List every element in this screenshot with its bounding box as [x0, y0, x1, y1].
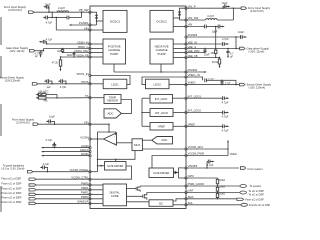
wire TS internal — [90, 97, 104, 99]
capacitor C6 10nF — [66, 52, 75, 58]
wire snubber row — [52, 12, 81, 17]
label From Input Supply top-left — [4, 5, 27, 12]
wire INT_LDO1 internal — [142, 98, 186, 126]
svg-text:30.6k: 30.6k — [212, 61, 219, 64]
node PGND2 junction — [160, 71, 161, 72]
capacitor C18 4.7uF VEE out — [226, 49, 234, 59]
wire GPO external — [186, 177, 218, 179]
transistor Q1 — [127, 186, 141, 192]
svg-text:(-15V, 120mA): (-15V, 120mA) — [249, 85, 266, 89]
arrow to VNEG net — [227, 140, 229, 143]
svg-text:GATE DRIVER: GATE DRIVER — [153, 172, 169, 175]
wire uC row 4 — [36, 193, 90, 195]
svg-text:I2C: I2C — [159, 201, 163, 205]
svg-text:From uC or DSP: From uC or DSP — [1, 176, 21, 180]
svg-text:-: - — [114, 134, 115, 138]
svg-text:INT_LDO2: INT_LDO2 — [155, 111, 168, 115]
svg-text:To uC or DSP: To uC or DSP — [249, 193, 265, 196]
label From Input Supply mid-left — [12, 117, 35, 124]
node snubber junction — [81, 12, 82, 13]
capacitor C21 4.7uF INT_LDO1 — [222, 96, 229, 104]
MUX — [132, 139, 142, 151]
svg-text:LDO1: LDO1 — [111, 82, 119, 86]
connector source driver supply — [32, 83, 37, 86]
block gate driver right — [149, 168, 174, 178]
wire VIN3P3 external — [186, 167, 239, 169]
block INT_LDO1 — [150, 95, 173, 104]
svg-text:From uC or DSP: From uC or DSP — [2, 200, 22, 204]
connector From system — [240, 167, 245, 170]
svg-text:4.7µF: 4.7µF — [222, 37, 229, 41]
wire WAKEUP to digital core — [90, 202, 103, 204]
capacitor C19 plates — [205, 78, 207, 82]
svg-text:4.7µF: 4.7µF — [46, 22, 53, 25]
transistor Q2 — [127, 193, 147, 200]
svg-text:µF: µF — [35, 55, 38, 58]
capacitor C23 4.7uF VREF — [222, 124, 229, 132]
connector gate driver supply left — [30, 49, 35, 52]
svg-text:µF: µF — [230, 55, 233, 58]
connector source driver supply negative — [240, 83, 245, 86]
svg-text:4.7µF: 4.7µF — [222, 128, 229, 132]
capacitor C20 4.7uF VNEG — [220, 80, 231, 86]
resistor R5 30.6k — [212, 57, 221, 69]
ground arrow ASHLD — [41, 151, 90, 153]
svg-text:1M: 1M — [57, 50, 60, 53]
wire VCOM_PWR external — [186, 149, 228, 156]
connector uC row 1 — [29, 178, 36, 180]
node VB_SW junction — [96, 20, 97, 21]
block negative charge pump — [150, 39, 173, 64]
svg-text:4.7µF: 4.7µF — [46, 139, 53, 142]
wire digital core to I2C — [127, 201, 150, 203]
wire temp sensor to ADC — [121, 100, 132, 114]
ground arrow PGND1 — [69, 24, 90, 26]
capacitor C9 10uF VIN — [46, 116, 56, 125]
wire VDDH_IN external — [47, 43, 90, 45]
svg-text:MUX: MUX — [134, 143, 140, 147]
wire op-amp feedback — [98, 132, 117, 139]
svg-text:VB_SW: VB_SW — [79, 8, 89, 12]
diode D2 internal DCDC2 — [178, 12, 181, 15]
wire SCL external — [186, 204, 241, 206]
svg-text:(22V, 10mA): (22V, 10mA) — [10, 49, 25, 53]
connector oval nINT — [240, 191, 247, 194]
block LDO2 — [146, 79, 170, 89]
wire uC row 5 — [36, 198, 90, 200]
block DCDC2 — [150, 10, 173, 32]
ground arrow DGND — [41, 155, 90, 157]
connector panel backplane — [27, 170, 32, 173]
svg-text:(3.0V-6.0V): (3.0V-6.0V) — [250, 9, 264, 13]
node VIN_P junction — [233, 8, 234, 9]
wire Q2 to nINT — [147, 192, 186, 194]
svg-text:SENSOR: SENSOR — [107, 99, 118, 103]
label Gate driver Supply right — [247, 46, 270, 53]
connector gate driver supply right — [240, 47, 245, 50]
node VIN_SW junction — [179, 17, 180, 18]
svg-text:1µF: 1µF — [46, 86, 51, 89]
wire gate driver right outputs — [174, 168, 187, 178]
resistor R3 43k — [36, 97, 58, 103]
wire SDA external — [186, 198, 237, 200]
svg-text:PUMP: PUMP — [158, 52, 166, 56]
DAC — [152, 137, 173, 144]
svg-text:(-20V, 12mA): (-20V, 12mA) — [249, 50, 265, 54]
node gate rail junctions — [204, 48, 236, 49]
node gate supply junction — [43, 50, 44, 51]
block INT_LDO2 — [150, 109, 173, 117]
left pin circles — [89, 11, 91, 204]
svg-text:From uC or DSP: From uC or DSP — [2, 195, 22, 199]
node VNEG junction — [235, 84, 236, 85]
connector uC row 5 — [29, 198, 36, 200]
svg-text:TEMP: TEMP — [109, 95, 116, 99]
label Source Driver Supply negative — [247, 82, 272, 89]
wire Q1 to PWR_GOOD — [140, 185, 186, 187]
wire VIN internal DCDC2 — [173, 26, 186, 28]
block temp sensor — [104, 95, 121, 104]
svg-text:DAC: DAC — [162, 138, 168, 142]
node internal LDO bus junction — [141, 112, 142, 113]
svg-text:(3.0V-6.0V): (3.0V-6.0V) — [8, 8, 22, 12]
wire VIN analog external — [38, 123, 90, 125]
inductor L2 4.7uH — [206, 15, 218, 20]
wire nINT external — [186, 192, 240, 194]
left pin labels — [70, 8, 90, 204]
label To panel backplane — [1, 165, 25, 171]
wire VIN right external — [186, 27, 218, 49]
svg-text:To system: To system — [250, 184, 262, 188]
resistor R1 1M — [57, 48, 63, 53]
label Source Driver Supply — [0, 75, 24, 82]
wire PGND2 external with ground arrow — [186, 71, 207, 73]
svg-text:VCOM: VCOM — [80, 135, 89, 139]
wire uC row 6 — [36, 202, 90, 204]
node VCOM output junction — [97, 138, 98, 139]
svg-text:ADC: ADC — [108, 111, 114, 115]
wire MUX bottom to gate driver left — [98, 151, 136, 162]
svg-text:DIGITAL: DIGITAL — [110, 190, 121, 194]
label Gate driver Supply left — [6, 46, 29, 53]
wires VDDH pins to positive charge pump — [90, 44, 103, 57]
wire VEE_FB external — [186, 57, 220, 59]
capacitor C2 4.7uF — [43, 16, 53, 25]
wires PWR inputs to digital core — [90, 185, 103, 199]
wire VEE_DRV external — [186, 52, 205, 54]
connector oval SCL — [241, 203, 248, 206]
wire VCOM_ADJ external to VNEG — [186, 142, 228, 149]
arrow gate driver output — [175, 171, 178, 175]
wire VIN internal to amplifier — [90, 124, 109, 132]
capacitor C14 10uF — [212, 25, 225, 34]
wire TS external — [57, 94, 90, 98]
svg-text:From uC or DSP: From uC or DSP — [2, 182, 22, 186]
wire input supply to VB_SW — [34, 11, 90, 13]
wire VIN_P internal — [173, 8, 186, 20]
connector uC row 6 — [29, 202, 36, 204]
capacitor C17 12nF — [203, 49, 210, 57]
capacitor C16 4.7uF VEE_IN — [222, 37, 229, 46]
node VCOM_ADJ junction — [227, 148, 228, 149]
node gate driver tap junction — [97, 165, 98, 166]
wires VEE pins to negative charge pump — [173, 44, 186, 58]
block positive charge pump — [103, 39, 126, 64]
connector uC row 2 — [29, 184, 36, 186]
svg-text:10kΩ: 10kΩ — [219, 192, 225, 195]
labels From uC or DSP rows — [1, 176, 21, 204]
node PGND3 junction — [235, 36, 236, 37]
block digital core — [103, 184, 127, 206]
block I2C — [149, 200, 173, 207]
svg-text:(15V,120mA): (15V,120mA) — [5, 78, 20, 82]
wire VIN_P external — [186, 7, 242, 9]
wire VNEG_IN external flying capacitor link — [186, 77, 236, 85]
label From Input Supply top-right — [248, 6, 271, 13]
wire PGND3 external — [186, 37, 240, 49]
svg-text:CORE: CORE — [111, 194, 119, 198]
wire VCOM output — [90, 138, 104, 140]
connector uC row 3 — [29, 189, 36, 191]
capacitor C5 4.7uF VDDH_IN — [39, 38, 53, 44]
svg-text:4.7µF: 4.7µF — [225, 82, 231, 84]
svg-text:LDO2: LDO2 — [154, 82, 162, 86]
op-amp VCOM amplifier — [104, 133, 117, 146]
connector input supply mid-left — [33, 123, 38, 126]
svg-text:INT_LDO1: INT_LDO1 — [155, 97, 168, 101]
wire VCOM_PANEL external — [33, 171, 90, 173]
diode D1 internal DCDC1 — [95, 15, 98, 18]
svg-text:+: + — [114, 142, 116, 146]
svg-text:2.2µH: 2.2µH — [58, 7, 65, 10]
wire VEE_IN external — [186, 43, 222, 45]
ground arrow AGND — [41, 147, 90, 149]
svg-text:DCDC1: DCDC1 — [110, 20, 121, 24]
wire VIN pin to input rail — [56, 18, 90, 31]
svg-text:(3.0V-6.0V): (3.0V-6.0V) — [16, 121, 30, 125]
wire uC row 1 — [36, 178, 90, 180]
wire VPOS_IN internal — [90, 76, 130, 85]
svg-text:From uC or DSP: From uC or DSP — [2, 191, 22, 195]
wire input rail drop — [51, 12, 53, 17]
capacitor C1 10uF — [43, 3, 51, 13]
resistor R6 10k — [216, 178, 225, 187]
capacitor C15 10uF PGND3 — [238, 30, 247, 39]
block LDO1 — [103, 79, 127, 89]
svg-text:From system: From system — [248, 167, 263, 171]
wire VIN internal DCDC1 — [90, 29, 103, 31]
svg-text:4.7µF: 4.7µF — [43, 163, 50, 166]
wire VIN_SW external — [186, 8, 233, 20]
wire PGND1 internal — [90, 24, 97, 26]
node VIN junction — [56, 17, 57, 18]
wire MUX to op-amp positive input — [117, 142, 133, 144]
wire VIN_SW internal — [180, 19, 187, 21]
svg-text:(-0.3 to -2.5V, 15mA): (-0.3 to -2.5V, 15mA) — [1, 168, 24, 171]
block gate driver left — [105, 162, 127, 171]
capacitor C3 series — [67, 16, 69, 20]
wire uC row 2 — [36, 184, 90, 186]
svg-text:10kΩ: 10kΩ — [219, 179, 225, 182]
wire VPOS external — [38, 83, 90, 85]
svg-text:4.7µF: 4.7µF — [46, 38, 53, 41]
connector From uC SDA — [237, 198, 244, 200]
resistor R2 47.2k — [52, 56, 62, 71]
wire uC row 3 — [36, 189, 90, 191]
svg-text:10µF: 10µF — [222, 2, 228, 5]
svg-text:4.7µF: 4.7µF — [222, 115, 229, 119]
capacitor C11 4.7uF VCOM — [40, 163, 50, 172]
resistor R7 10k — [216, 186, 225, 194]
connector uC row 4 — [29, 193, 36, 195]
wire VREF internal — [142, 125, 186, 127]
svg-text:From uC or DSP: From uC or DSP — [2, 186, 22, 190]
wire VDDH_FB external — [61, 56, 91, 58]
svg-text:10nF: 10nF — [66, 54, 72, 57]
block VREF — [150, 123, 173, 131]
wire VNEG internal — [169, 84, 186, 86]
wire VNEG_IN internal — [142, 77, 186, 85]
node input rail junction — [52, 12, 53, 13]
svg-text:10kΩ: 10kΩ — [219, 186, 225, 189]
svg-text:GATE DRIVER: GATE DRIVER — [107, 165, 123, 168]
wire PWR_GOOD external — [186, 185, 240, 187]
resistor R4 1M — [210, 49, 216, 59]
resistor R8 10k — [216, 192, 225, 199]
capacitor C4 4.7uF gate supply — [34, 51, 43, 58]
wire DAC to MUX — [142, 139, 151, 141]
wire VB_SW internal — [90, 12, 103, 25]
svg-text:4.7µF: 4.7µF — [207, 163, 214, 167]
svg-text:DCDC2: DCDC2 — [156, 19, 167, 23]
thermistor RT1 — [36, 93, 58, 96]
wire VDDH_DRV external — [63, 52, 91, 54]
capacitor C7 1uF VPOS — [44, 79, 53, 89]
node feedback junction — [108, 131, 109, 132]
block DCDC1 — [103, 10, 127, 32]
figure left border — [0, 17, 2, 212]
svg-text:43k: 43k — [43, 99, 48, 103]
ADC — [104, 109, 121, 118]
wire INT_LDO2 internal — [142, 112, 186, 114]
wire gate supply to VDDH_G — [35, 49, 90, 51]
svg-text:4.7µF: 4.7µF — [222, 100, 229, 104]
svg-text:From uC or DSP: From uC or DSP — [245, 199, 264, 202]
svg-text:VPOS_IN: VPOS_IN — [76, 72, 88, 76]
svg-text:4.7µH: 4.7µH — [207, 15, 214, 18]
wire INT_LDO1 external — [186, 97, 222, 99]
connector oval To system — [240, 185, 247, 188]
capacitor C12 10uF VIN_P — [222, 2, 231, 9]
svg-text:From/to uC or DSP: From/to uC or DSP — [249, 204, 271, 207]
svg-text:10µF: 10µF — [238, 30, 244, 34]
svg-text:PUMP: PUMP — [110, 52, 118, 56]
svg-text:10µF: 10µF — [212, 30, 218, 34]
svg-text:VNEG: VNEG — [188, 81, 196, 85]
wire I2C to SDA — [173, 199, 186, 201]
svg-text:47.2k: 47.2k — [52, 61, 59, 64]
wire VCOM_CTRL to gate driver left — [90, 166, 132, 179]
svg-text:VREF: VREF — [158, 125, 166, 129]
svg-text:12nF: 12nF — [204, 53, 210, 56]
wire INT_LDO2 external — [186, 112, 222, 114]
svg-text:4.7µF: 4.7µF — [60, 86, 67, 89]
wire to gate driver left with arrow — [98, 165, 105, 167]
IC outline U1 — [90, 6, 186, 209]
wire VEE_G gate supply rail — [186, 48, 240, 50]
svg-text:4.7µF: 4.7µF — [208, 78, 214, 80]
svg-text:10µF: 10µF — [49, 116, 55, 119]
capacitor C22 4.7uF INT_LDO2 — [222, 111, 229, 119]
wire VCOM_PWR internal to gate driver right — [152, 156, 186, 169]
svg-text:VNEG: VNEG — [230, 153, 237, 156]
capacitor C13 series charge pump — [205, 25, 207, 29]
wire charge pump grounds to PGND2 — [114, 64, 186, 72]
wire VCOM_ADJ internal to MUX — [142, 148, 186, 150]
wire VCOM to VCOM_PANEL — [90, 139, 98, 172]
connector input supply top-left — [29, 11, 34, 14]
inductor L1 2.2uH — [57, 7, 69, 12]
wire VREF external — [186, 125, 222, 127]
capacitor C10 4.7uF AGND — [46, 139, 57, 148]
right pin labels — [188, 4, 205, 205]
wire I2C to SCL — [173, 204, 186, 206]
connector input supply top-right — [241, 7, 246, 10]
capacitor C24 4.7uF VIN3P3 — [206, 160, 214, 169]
capacitor C8 4.7uF VPOS — [58, 79, 67, 89]
wire VPOS internal — [90, 83, 103, 85]
wire VNEG external — [186, 84, 240, 86]
svg-text:1M: 1M — [210, 52, 213, 55]
node TS junction — [56, 97, 57, 98]
right pin circles — [185, 7, 187, 206]
